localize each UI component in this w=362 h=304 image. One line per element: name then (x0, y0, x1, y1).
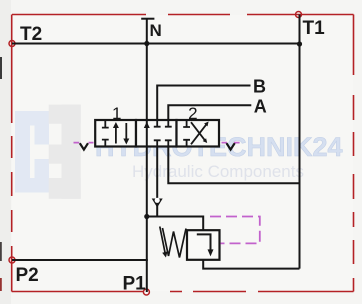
svg-text:B: B (253, 77, 266, 97)
svg-text:T1: T1 (303, 18, 326, 39)
pos1 down arrow (125, 123, 127, 142)
watermark logo glyph reversed-E (grey bracket) (49, 105, 81, 199)
relief valve adjustment arrow (160, 227, 165, 253)
valve V1 position 2 box (177, 120, 220, 147)
check valve CV1 (152, 198, 163, 208)
watermark logo glyph E (blue bracket) (15, 111, 49, 193)
right actuator pilot dashes (222, 142, 240, 144)
relief valve RV1 body (187, 230, 220, 260)
wire T1 vertical (299, 15, 301, 269)
node N plug tick (141, 18, 154, 20)
relief valve pilot line (magenta dashed) (210, 217, 260, 244)
junction dot N on tank line (144, 41, 149, 46)
node P2 port circle (9, 257, 15, 263)
junction dot T1 on tank line (297, 41, 302, 46)
svg-text:1: 1 (112, 104, 121, 123)
center box blocked port B top (154, 121, 161, 127)
center box blocked port A top (165, 121, 172, 127)
svg-text:A: A (254, 97, 267, 117)
red dashed border top (12, 14, 354, 16)
left actuator v symbol (80, 143, 88, 149)
left actuator pilot dashes (74, 142, 94, 144)
wire tank line T2-T1 (12, 43, 300, 45)
center box N passage with up arrow (146, 120, 148, 147)
node T2 port circle (9, 41, 15, 47)
wire P2 line (12, 259, 148, 261)
red dashed border right (353, 15, 355, 292)
svg-text:P2: P2 (16, 265, 39, 286)
wire N vertical / P1 line (146, 19, 148, 292)
relief valve internal arrow (197, 234, 211, 250)
red dashed border bottom (12, 291, 354, 293)
wire port A line (168, 105, 251, 120)
node T1 port circle (296, 12, 302, 18)
pos2 crossed arrows (191, 124, 207, 145)
red dashed border left (11, 15, 13, 292)
center box blocked port bottom right (165, 140, 172, 145)
wire relief inlet branch (147, 217, 203, 231)
pos1 blocked port bottom (102, 140, 109, 146)
svg-text:P1: P1 (123, 274, 147, 295)
wire valve tank return to T1 (168, 147, 299, 184)
pos1 up arrow (115, 125, 117, 144)
svg-text:2: 2 (188, 104, 197, 123)
right actuator v symbol (227, 143, 235, 149)
pos2 blocked port top (183, 121, 190, 127)
wire relief outlet to T1 (203, 260, 299, 269)
left edge photo artifacts (0, 57, 2, 79)
valve V1 center box (136, 120, 177, 147)
pos1 blocked port top (102, 121, 109, 128)
node P1 port circle (143, 289, 149, 295)
pos2 blocked port bottom (183, 140, 190, 146)
junction dot relief branch (144, 214, 149, 219)
wire port B line (157, 86, 250, 121)
center box blocked port bottom left (154, 140, 161, 145)
relief valve spring (163, 228, 187, 258)
valve V1 position 1 box (95, 120, 136, 147)
svg-text:T2: T2 (20, 24, 42, 45)
svg-text:N: N (150, 21, 162, 40)
wire valve to check valve (156, 147, 158, 217)
